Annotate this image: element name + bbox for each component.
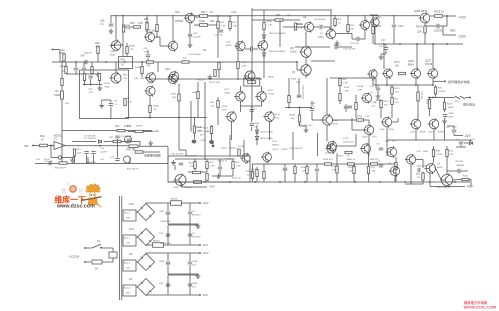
wire mid rail: [150, 78, 262, 80]
svg-text:2N103: 2N103: [281, 149, 288, 151]
wire: [285, 107, 312, 109]
transistor Q102: [429, 119, 439, 129]
transistor Q304: [145, 32, 154, 41]
wire: [149, 96, 151, 106]
svg-text:R124: R124: [251, 169, 257, 171]
wire: [432, 44, 434, 69]
svg-text:3170: 3170: [275, 118, 281, 120]
svg-text:180*: 180*: [172, 97, 177, 99]
resistor R12B: [263, 172, 265, 179]
wire: [330, 10, 332, 30]
wire: [460, 145, 462, 147]
wire: [435, 85, 437, 87]
wire: [292, 132, 294, 160]
wire: [178, 101, 180, 118]
wire: [294, 164, 296, 167]
capacitor C310: [392, 24, 396, 26]
svg-text:1K: 1K: [41, 138, 44, 141]
svg-text:+42: +42: [100, 159, 104, 161]
LED LED103: [262, 53, 265, 56]
resistor R11a: [182, 61, 189, 63]
wire: [394, 176, 396, 182]
LED LED104: [262, 35, 265, 38]
transistor Qa: [242, 154, 250, 162]
wire: [206, 169, 208, 173]
svg-text:D6 1N4148: D6 1N4148: [314, 19, 326, 21]
resistor R10A: [149, 106, 151, 113]
wire common: [168, 223, 198, 225]
wire: [218, 61, 220, 64]
capacitor C112: [283, 167, 287, 169]
ground: [377, 94, 379, 97]
svg-text:C14 10u47P: C14 10u47P: [343, 49, 356, 51]
resistor R19c: [232, 162, 234, 169]
capacitor C311: [436, 24, 438, 28]
wire: [433, 146, 435, 150]
svg-text:R602 1k: R602 1k: [347, 159, 356, 161]
wire: [376, 99, 381, 101]
capacitor C105: [250, 108, 254, 110]
resistor R03: [422, 173, 424, 180]
svg-text:+32V: +32V: [202, 201, 209, 205]
junction: [204, 181, 206, 183]
wire: [336, 153, 338, 166]
svg-text:C8 0.47u: C8 0.47u: [350, 43, 360, 45]
svg-text:0.1: 0.1: [101, 23, 105, 26]
svg-text:R128 470: R128 470: [323, 159, 333, 161]
svg-text:Q102: Q102: [428, 132, 434, 134]
resistor R12m: [135, 130, 143, 132]
transistor Q109b: [361, 144, 370, 153]
wire: [433, 157, 435, 163]
wire: [368, 135, 370, 156]
junction: [87, 162, 89, 164]
svg-text:喇叭输出: 喇叭输出: [463, 102, 475, 107]
svg-text:C1940: C1940: [268, 94, 275, 96]
svg-text:10000u/50V: 10000u/50V: [160, 243, 171, 245]
wire: [188, 171, 207, 173]
transistor Q301: [420, 13, 430, 23]
wire: [219, 170, 221, 176]
wire: [422, 172, 424, 174]
svg-text:C30: C30: [159, 233, 164, 235]
svg-text:C6: C6: [203, 49, 207, 52]
svg-text:GREEN: GREEN: [456, 165, 464, 167]
resistor R11fb: [113, 140, 121, 142]
junction: [124, 61, 126, 63]
wire: [283, 26, 305, 28]
wire: [189, 203, 191, 211]
junction: [75, 61, 77, 63]
svg-text:R102 100k: R102 100k: [210, 82, 221, 84]
capacitor C9: [319, 25, 321, 29]
svg-text:2.4E: 2.4E: [236, 166, 241, 168]
wire: [87, 157, 89, 163]
wire: [391, 85, 393, 87]
wire: [446, 185, 448, 188]
svg-text:10u47P: 10u47P: [100, 152, 108, 154]
svg-text:C112 10u47P: C112 10u47P: [289, 148, 303, 150]
svg-text:1W: 1W: [395, 65, 399, 68]
wire: [306, 164, 308, 167]
junction: [429, 181, 431, 183]
resistor R120: [294, 23, 296, 30]
wire: [141, 62, 143, 67]
svg-text:R10A: R10A: [358, 85, 364, 88]
svg-text:39: 39: [154, 109, 157, 111]
svg-text:C51: C51: [36, 159, 41, 161]
svg-text:R12 0.47: R12 0.47: [232, 178, 242, 180]
svg-text:LED103 GREEN: LED103 GREEN: [269, 51, 286, 53]
wire: [433, 129, 435, 140]
wire: [189, 233, 191, 245]
resistor R87: [98, 74, 100, 81]
transistor Q22: [168, 74, 177, 83]
wire: [217, 29, 219, 59]
wire: [355, 95, 357, 103]
svg-text:Q305: Q305: [145, 30, 152, 33]
svg-text:10K: 10K: [65, 103, 69, 105]
wire: [194, 24, 200, 26]
svg-text:560E: 560E: [105, 86, 111, 88]
wire: [266, 161, 268, 164]
wire: [305, 57, 307, 65]
svg-text:IC1: IC1: [54, 138, 58, 141]
wire: [101, 247, 113, 249]
svg-text:330: 330: [350, 29, 354, 31]
svg-text:R11: R11: [183, 58, 188, 60]
svg-text:330u/50V: 330u/50V: [192, 237, 201, 239]
wire: [298, 78, 300, 94]
svg-text:C40: C40: [80, 55, 85, 58]
transistor Q16 top: [185, 13, 194, 22]
svg-text:10E: 10E: [247, 175, 251, 177]
wire: [263, 50, 265, 53]
collector box: [244, 78, 260, 86]
svg-text:2.2E: 2.2E: [210, 166, 215, 168]
wire: [156, 15, 158, 25]
svg-text:www.dzsc.com: www.dzsc.com: [56, 204, 95, 210]
wire: [138, 145, 168, 147]
svg-text:10u47P: 10u47P: [193, 37, 201, 39]
svg-text:R30A: R30A: [59, 52, 65, 55]
wire: [329, 27, 331, 30]
wire: [386, 140, 388, 156]
resistor R209: [434, 87, 436, 94]
wire bottom rail: [168, 181, 470, 183]
svg-text:Q303: Q303: [110, 51, 116, 53]
wire: [417, 101, 419, 119]
label -32V: [453, 133, 455, 135]
wire: [305, 75, 307, 78]
svg-text:C04: C04: [88, 89, 93, 91]
bridge rectifier AC1-1: [138, 204, 155, 221]
resistor R16: [372, 27, 374, 34]
resistor R4A: [40, 144, 48, 147]
ground: [99, 86, 101, 89]
svg-text:R301: R301: [416, 25, 423, 29]
wire: [167, 265, 169, 274]
resistor R61: [339, 79, 341, 86]
wire: [190, 101, 192, 132]
wire mid-left vertical: [251, 8, 253, 78]
shield box 2: [168, 156, 250, 182]
wire bias bus extension: [247, 61, 297, 63]
ground: [209, 75, 211, 78]
svg-text:0.33: 0.33: [192, 287, 197, 289]
svg-text:1K: 1K: [287, 14, 290, 17]
resistor R128: [325, 163, 332, 165]
wire: [194, 118, 196, 126]
wire: [359, 38, 365, 40]
svg-text:R1A: R1A: [192, 91, 197, 94]
wire: [65, 62, 67, 67]
svg-text:R6: R6: [147, 65, 151, 68]
svg-text:LED104 GREEN: LED104 GREEN: [269, 33, 286, 35]
transistor Q304b: [426, 164, 436, 174]
wire: [415, 78, 417, 85]
inductor L105: [455, 96, 460, 99]
capacitor C10A blob: [209, 140, 214, 144]
junction: [84, 84, 86, 86]
junction: [296, 61, 298, 63]
svg-text:22K: 22K: [296, 82, 300, 84]
wire: [465, 97, 470, 99]
capacitor C5: [84, 151, 88, 153]
wire: [175, 158, 207, 160]
svg-text:AC220V: AC220V: [69, 255, 80, 259]
svg-text:AC2-2: AC2-2: [124, 287, 131, 290]
svg-text:R16A: R16A: [199, 20, 205, 23]
resistor R135: [353, 167, 355, 174]
svg-text:D770: D770: [343, 138, 349, 140]
wire: [416, 158, 423, 160]
transistor Q302: [441, 174, 452, 185]
wire: [334, 26, 336, 28]
diode D1: [98, 140, 101, 143]
svg-text:R52 281YP: R52 281YP: [55, 168, 67, 170]
transistor Q116: [257, 92, 266, 101]
svg-text:470: 470: [211, 106, 215, 108]
resistor R11b: [218, 63, 220, 70]
wire common: [168, 224, 198, 226]
svg-text:R10: R10: [210, 102, 215, 104]
resistor R603: [371, 163, 378, 165]
resistor R118: [263, 23, 265, 30]
wire: [393, 15, 395, 24]
svg-text:Q110 3170: Q110 3170: [343, 142, 354, 144]
wire: [294, 174, 296, 183]
wire: [306, 174, 308, 183]
transistor Q205: [411, 69, 420, 78]
svg-text:Q101: Q101: [410, 132, 416, 134]
resistor R141: [443, 103, 445, 110]
resistor R2L: [124, 99, 126, 106]
svg-text:R136: R136: [291, 79, 297, 81]
wire: [447, 170, 458, 172]
capacitor C41: [74, 67, 78, 69]
wire: [240, 86, 242, 92]
capacitor C16: [115, 135, 119, 137]
svg-text:+42V: +42V: [231, 11, 237, 14]
svg-text:C115 4.7u: C115 4.7u: [226, 159, 237, 161]
wire: [189, 23, 191, 33]
svg-text:R11: R11: [395, 99, 400, 101]
svg-text:0.47: 0.47: [453, 127, 458, 129]
wire: [430, 186, 465, 188]
svg-text:R30: R30: [123, 75, 128, 77]
capacitor C306: [188, 283, 192, 285]
wire mid rail 118: [125, 117, 207, 119]
svg-text:102W: 102W: [448, 107, 455, 109]
wire: [157, 62, 159, 72]
ground: [197, 224, 199, 227]
wire: [444, 98, 446, 103]
wire: [410, 164, 412, 184]
wire: [261, 101, 263, 106]
svg-text:R134: R134: [301, 167, 307, 169]
svg-text:R17 10K: R17 10K: [127, 148, 136, 150]
svg-text:C10B: C10B: [448, 113, 454, 115]
capacitor C11: [127, 138, 131, 140]
wire: [61, 86, 63, 92]
svg-text:Q116: Q116: [268, 90, 274, 92]
svg-text:1M: 1M: [62, 71, 65, 73]
svg-text:R114: R114: [203, 128, 209, 130]
wire: [317, 133, 319, 156]
wire: [217, 97, 219, 101]
wire: [311, 101, 313, 106]
transistor Q303: [111, 41, 121, 51]
wire: [372, 34, 374, 45]
wire: [256, 125, 258, 130]
resistor R602: [348, 163, 355, 165]
wire: [146, 30, 148, 34]
capacitor C302: [166, 211, 170, 213]
wire left vertical: [122, 15, 124, 61]
svg-text:Q28: Q28: [165, 68, 170, 71]
wire: [424, 23, 426, 26]
resistor R10col: [229, 22, 231, 29]
wire: [97, 54, 99, 63]
wire: [240, 101, 242, 112]
wire: [446, 16, 448, 26]
svg-text:C1940: C1940: [224, 93, 231, 95]
svg-text:8550: 8550: [389, 129, 395, 131]
transistor Q115: [258, 41, 267, 50]
svg-text:C3: C3: [192, 211, 196, 213]
transistor Q111: [327, 141, 336, 150]
wire: [100, 145, 129, 147]
wire: [229, 16, 231, 22]
wire: [241, 105, 262, 107]
svg-text:1.4E: 1.4E: [221, 26, 226, 28]
wire: [204, 82, 206, 118]
transistor Q110: [362, 93, 371, 102]
wire: [194, 159, 196, 162]
junction: [90, 84, 92, 86]
svg-text:AC1-1: AC1-1: [124, 212, 131, 215]
svg-text:QP: QP: [377, 16, 381, 19]
resistor R133: [357, 119, 364, 121]
resistor R107: [217, 101, 219, 108]
wire: [424, 33, 426, 44]
wire: [299, 108, 301, 116]
svg-text:Q108: Q108: [379, 129, 385, 131]
transistor Q306: [168, 41, 177, 50]
wire: [351, 118, 353, 130]
svg-text:R10B: R10B: [254, 123, 260, 125]
wire: [189, 225, 191, 233]
resistor R136b: [336, 166, 338, 173]
svg-text:BT06: BT06: [333, 124, 339, 126]
wire: [245, 162, 247, 164]
wire: [167, 253, 169, 261]
wire: [91, 62, 93, 67]
capacitor C106: [310, 108, 314, 110]
wire: [256, 177, 258, 183]
svg-text:W2: W2: [55, 90, 59, 93]
wire: [189, 215, 191, 224]
transformer primary: [109, 252, 117, 258]
resistor R13b: [347, 25, 349, 32]
svg-text:NE5532: NE5532: [54, 135, 63, 138]
resistor R129: [294, 167, 296, 174]
svg-text:C101 100Kta: C101 100Kta: [188, 53, 202, 56]
transistor Q2: [301, 65, 311, 75]
transistor Q303b: [390, 166, 399, 175]
transistor Q1: [301, 47, 311, 57]
resistor R12Bb: [238, 149, 240, 156]
wire: [425, 25, 437, 27]
svg-text:R013: R013: [447, 104, 453, 106]
svg-text:INP: INP: [24, 144, 29, 148]
wire: [339, 101, 341, 105]
wire Q2 base: [296, 62, 298, 70]
ground: [173, 160, 175, 163]
wire: [256, 167, 258, 170]
wire: [345, 104, 347, 105]
resistor R301: [424, 26, 426, 33]
svg-text:200k: 200k: [77, 153, 83, 155]
wire output: [145, 294, 147, 297]
svg-text:片: 片: [79, 188, 84, 195]
wire: [430, 15, 434, 17]
svg-text:Q2: Q2: [292, 71, 296, 74]
svg-text:R13: R13: [371, 167, 376, 169]
svg-text:Q30: Q30: [385, 141, 390, 143]
svg-text:Q206: Q206: [173, 187, 179, 189]
svg-text:R133: R133: [357, 116, 363, 118]
wire: [147, 58, 149, 62]
wire: [336, 33, 348, 35]
transistor Q101: [411, 119, 421, 129]
svg-text:24V: 24V: [126, 218, 130, 220]
resistor R220: [194, 181, 202, 184]
capacitor C117: [379, 147, 383, 149]
svg-text:634E: 634E: [110, 54, 116, 56]
resistor R136m: [288, 96, 290, 103]
svg-text:天威特约维修: 天威特约维修: [144, 154, 161, 158]
svg-text:1.4K: 1.4K: [268, 25, 273, 27]
junction: [446, 43, 448, 45]
transistor QD1: [125, 136, 132, 143]
transistor Q110b: [327, 144, 336, 153]
svg-text:扬声器保护电路: 扬声器保护电路: [448, 79, 470, 84]
fuse R302: [435, 15, 443, 18]
svg-text:R10B: R10B: [268, 77, 274, 79]
svg-text:R14: R14: [77, 149, 82, 151]
